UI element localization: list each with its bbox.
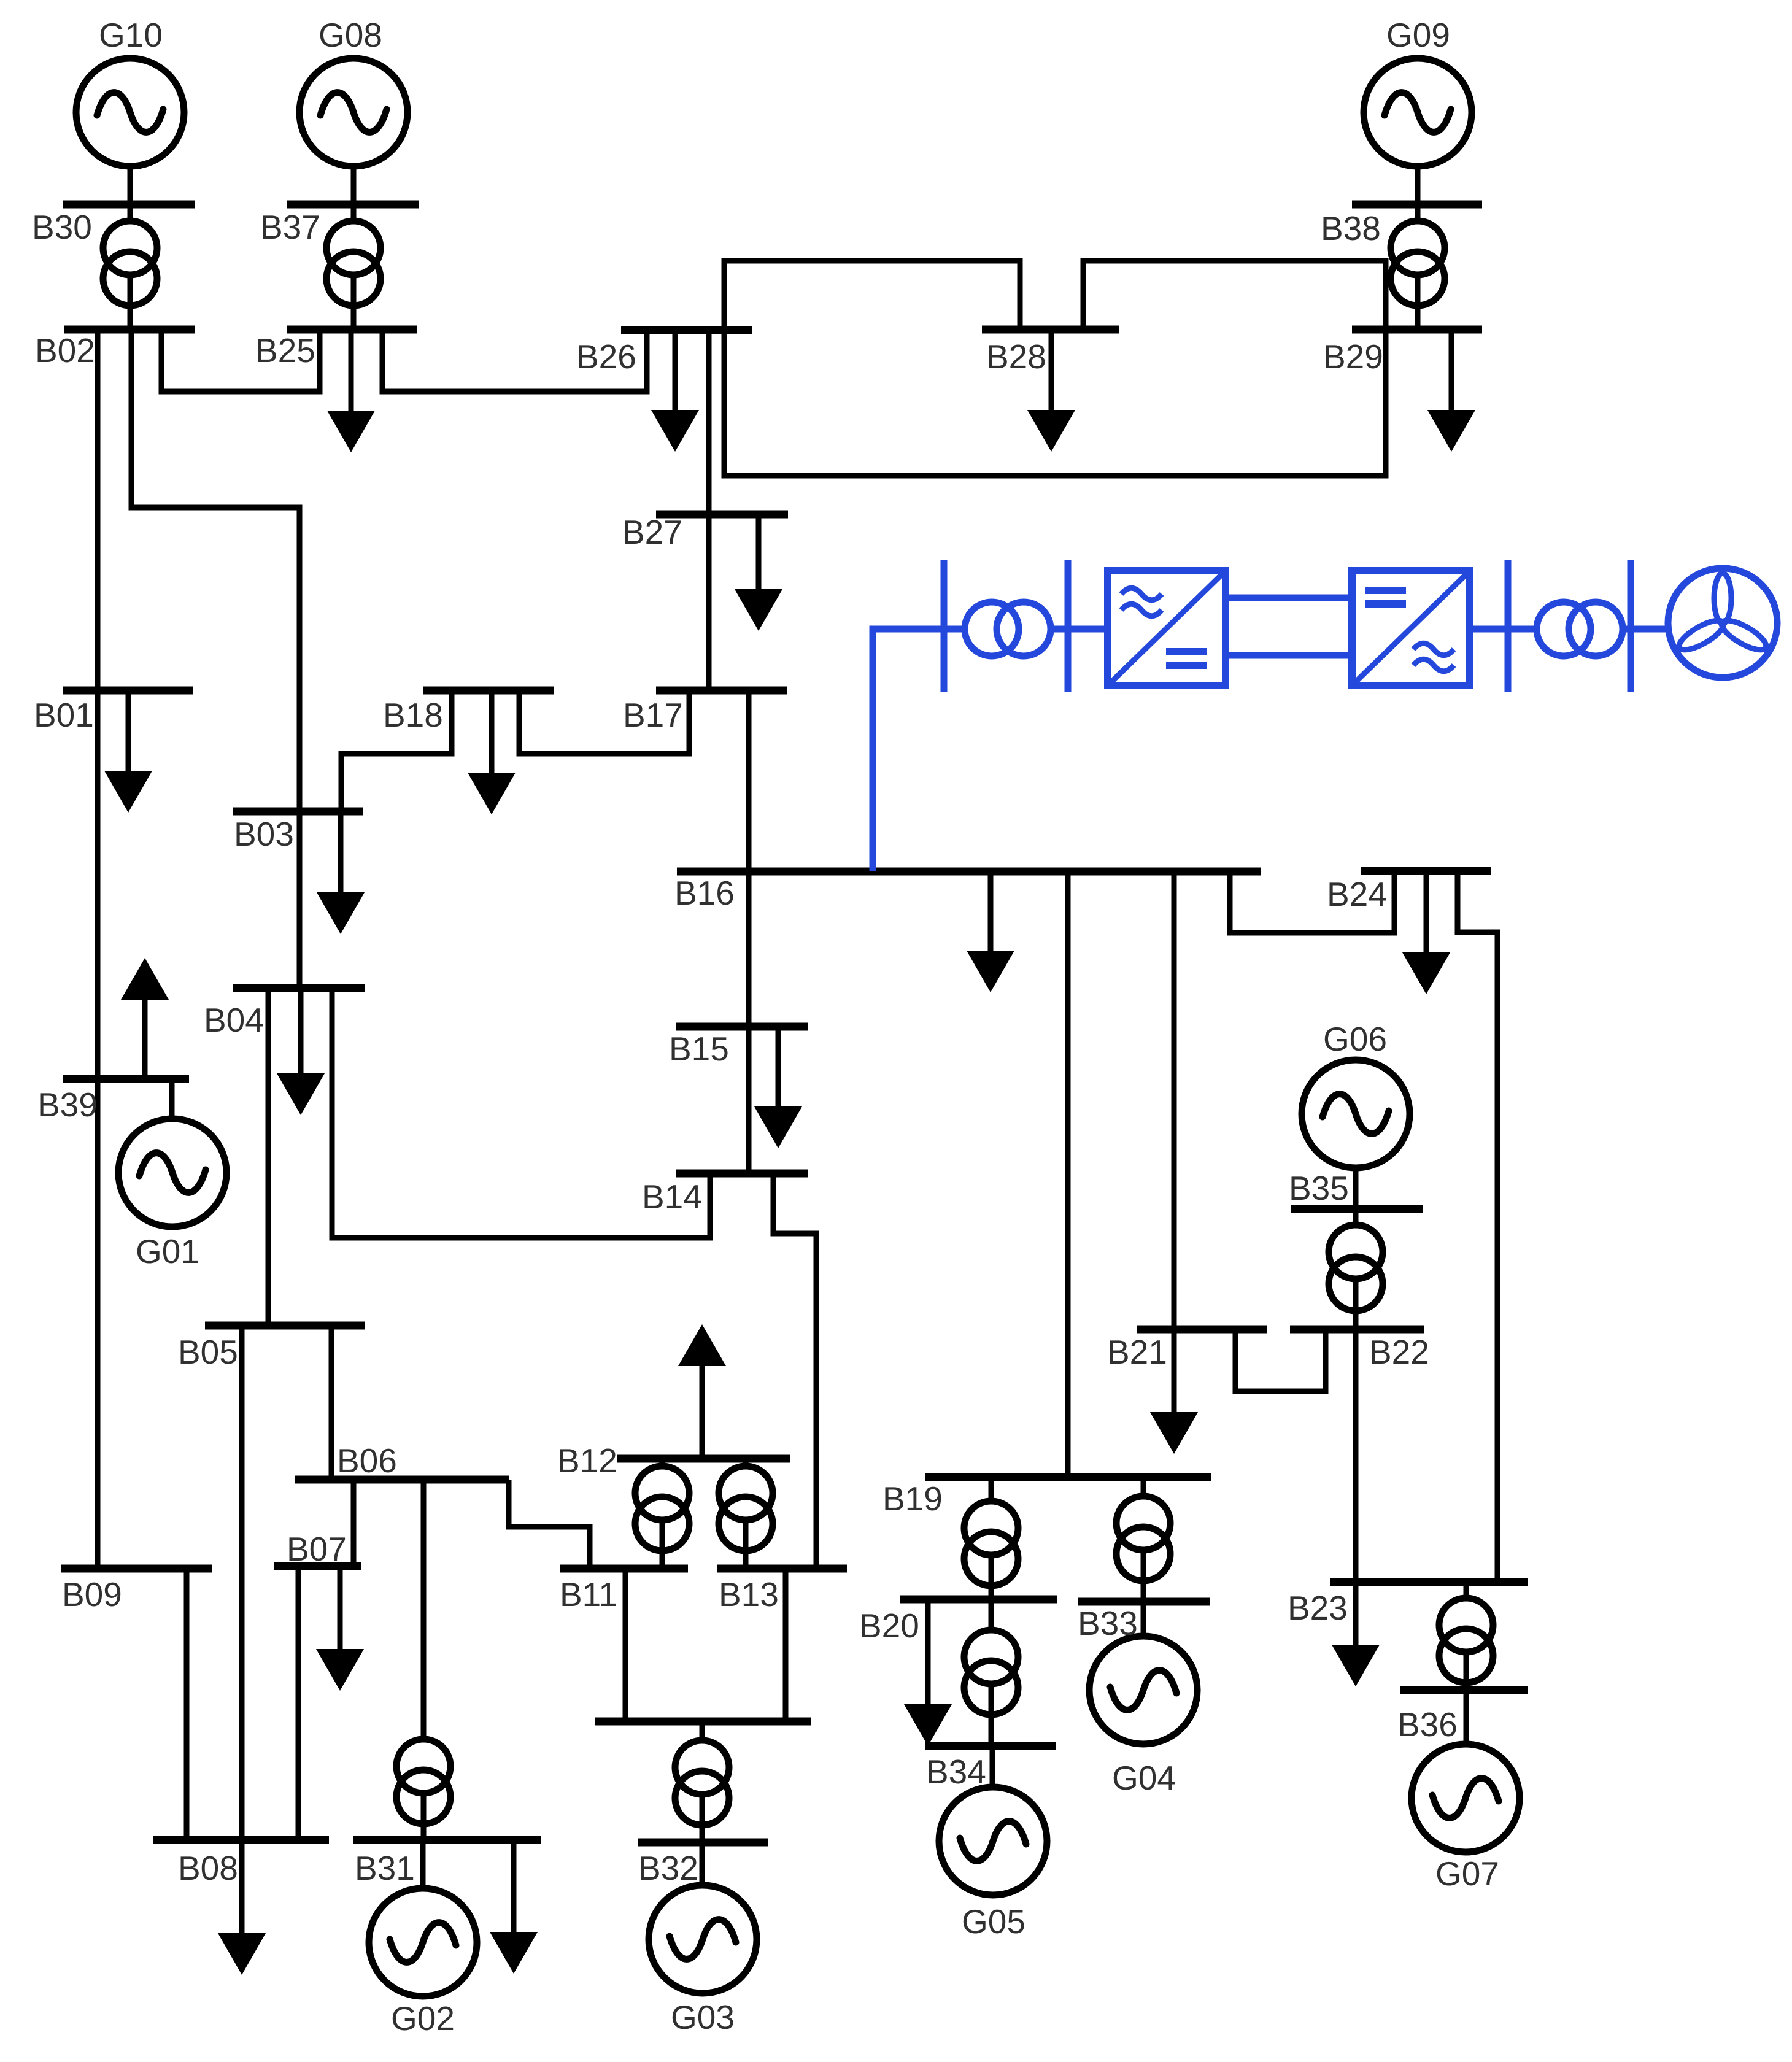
wire B06-B11 <box>509 1480 590 1569</box>
svg-text:G09: G09 <box>1386 16 1450 54</box>
svg-text:B37: B37 <box>260 208 320 246</box>
bus B06 <box>295 1476 509 1484</box>
transformer B19-B20 <box>964 1501 1018 1586</box>
generator G03 <box>649 1885 757 1993</box>
transformer B30-B02 <box>103 221 157 306</box>
wire B37-B25 (via transformer) <box>351 204 357 330</box>
wire B05-B06 <box>329 1326 334 1480</box>
wire B34-G05 <box>990 1746 995 1787</box>
svg-text:G03: G03 <box>671 1998 735 2036</box>
wire B20-B34 (via transformer) <box>989 1599 994 1746</box>
HVDC terminal bar 4 <box>1628 560 1634 692</box>
load arrow at B27 <box>735 514 782 631</box>
bus B19 <box>925 1473 1211 1481</box>
wire B27-B17 <box>706 514 712 690</box>
wire B11-B10 <box>623 1569 628 1721</box>
wire B26-B28 (top trunk) <box>724 261 1020 330</box>
svg-text:G02: G02 <box>391 1999 455 2037</box>
wire B02-B25 <box>161 330 320 392</box>
wire B14-B13 <box>773 1173 816 1569</box>
bus B03 <box>233 808 363 816</box>
svg-text:B16: B16 <box>674 874 735 912</box>
bus B07 <box>274 1562 361 1570</box>
wire T2 to wind turbine (blue) <box>1623 626 1670 633</box>
bus B16 <box>677 868 1261 876</box>
svg-text:B13: B13 <box>719 1575 779 1613</box>
svg-text:B15: B15 <box>669 1030 729 1068</box>
wire G09-B38 <box>1415 167 1421 204</box>
bus B17 <box>656 687 787 695</box>
bus B22 <box>1290 1326 1424 1334</box>
converter U1 (AC/DC) <box>1108 571 1226 685</box>
load arrow at B26 <box>651 330 699 452</box>
bus B29 <box>1352 326 1482 334</box>
generator G06 <box>1302 1060 1410 1168</box>
wire U2 to transformer T2 (blue) <box>1470 626 1537 633</box>
svg-text:G10: G10 <box>99 16 163 54</box>
bus B01 <box>63 687 193 695</box>
transformer B35-B22 <box>1329 1225 1383 1311</box>
wire B28-B29 (upper trunk) <box>1083 261 1386 330</box>
wire B06-B07 <box>351 1480 357 1566</box>
svg-text:G05: G05 <box>962 1902 1025 1940</box>
bus B13 <box>717 1565 847 1573</box>
load arrow at B24 <box>1402 871 1450 994</box>
load arrow at B21 <box>1150 1329 1198 1454</box>
svg-text:B29: B29 <box>1323 338 1383 376</box>
svg-text:B03: B03 <box>234 815 294 853</box>
svg-text:B17: B17 <box>623 696 683 734</box>
wire G08-B37 <box>351 167 357 204</box>
load arrow at B18 <box>468 690 516 814</box>
bus B37 <box>287 201 419 209</box>
bus B34 <box>925 1742 1056 1750</box>
svg-text:B36: B36 <box>1397 1705 1458 1743</box>
load arrow at B01 <box>104 690 152 813</box>
bus B32 <box>638 1839 768 1847</box>
bus B15 <box>676 1023 808 1031</box>
HVDC transformer T2 (blue) <box>1537 602 1623 656</box>
load arrow at B39 (up) <box>121 958 169 1079</box>
wire B39-G01 <box>169 1079 175 1119</box>
load arrow at B23 <box>1332 1582 1380 1686</box>
wire B24-B23 <box>1458 871 1497 1582</box>
wire B02-B03-B04 <box>131 330 299 988</box>
bus B33 <box>1078 1598 1210 1606</box>
wire B26-B27 <box>706 330 712 514</box>
wire B25-B26 <box>382 330 647 392</box>
generator G08 <box>299 58 407 166</box>
wire B19-B33 (via transformer) <box>1141 1477 1146 1602</box>
svg-text:B28: B28 <box>986 338 1046 376</box>
wire B12-B11 (via transformer) <box>660 1459 665 1569</box>
converter U2 (DC/AC) <box>1352 571 1470 685</box>
load arrow at B16 <box>967 871 1014 992</box>
svg-text:B35: B35 <box>1289 1169 1349 1207</box>
load arrow at B03 <box>317 811 365 934</box>
wire B13-B10 <box>783 1569 789 1721</box>
svg-text:B39: B39 <box>37 1086 98 1124</box>
svg-text:B38: B38 <box>1321 209 1381 247</box>
transformer B12-B11 <box>635 1466 689 1551</box>
wire B16 to HVDC tap (blue) <box>873 629 965 871</box>
svg-text:B08: B08 <box>178 1849 238 1887</box>
wire T1 to converter U1 (blue) <box>1051 626 1108 633</box>
transformer B23-B36 <box>1439 1598 1493 1683</box>
svg-text:B31: B31 <box>355 1849 415 1887</box>
svg-text:B18: B18 <box>383 696 443 734</box>
bus B26 <box>621 326 752 334</box>
svg-text:B09: B09 <box>62 1575 122 1613</box>
transformer B37-B25 <box>326 221 380 306</box>
svg-text:B02: B02 <box>35 331 95 369</box>
load arrow at B07 <box>316 1566 364 1691</box>
wire B16-B21 <box>1172 871 1177 1413</box>
svg-text:B32: B32 <box>638 1849 698 1887</box>
wire B17-B16-B15-B14 <box>746 690 752 1173</box>
generator G04 <box>1089 1636 1197 1744</box>
svg-text:B06: B06 <box>337 1442 397 1480</box>
bus B38 <box>1352 201 1482 209</box>
wire B38-B29 (via transformer) <box>1415 204 1421 330</box>
bus B08 <box>153 1836 329 1844</box>
wire B02-B01-B39-B09 <box>95 330 101 1569</box>
bus B18 <box>423 687 554 695</box>
bus B12 <box>617 1455 790 1463</box>
svg-text:B07: B07 <box>287 1530 347 1568</box>
load arrow at B08 <box>218 1840 266 1975</box>
wire B33-G04 <box>1141 1602 1146 1639</box>
bus B05 <box>205 1322 365 1330</box>
wire B12-B13 (via transformer) <box>743 1459 749 1569</box>
wire B18-B17 <box>519 690 689 754</box>
svg-text:B11: B11 <box>560 1575 617 1613</box>
load arrow at B29 <box>1427 330 1475 452</box>
bus B11 <box>560 1565 688 1573</box>
wire B16-B19 <box>1065 871 1071 1477</box>
bus B10 <box>595 1718 811 1726</box>
wire B36-G07 <box>1464 1690 1469 1745</box>
svg-text:G07: G07 <box>1435 1855 1499 1893</box>
svg-text:G01: G01 <box>136 1232 199 1270</box>
HVDC transformer T1 (blue) <box>965 602 1051 656</box>
wire B23-B36 (via transformer) <box>1464 1582 1469 1690</box>
svg-text:B24: B24 <box>1327 875 1387 913</box>
svg-text:G04: G04 <box>1112 1759 1176 1797</box>
bus B31 <box>353 1836 541 1844</box>
bus B24 <box>1361 867 1491 875</box>
load arrow at B31 <box>490 1840 538 1974</box>
bus B21 <box>1137 1326 1267 1334</box>
transformer B20-B34 <box>964 1630 1018 1715</box>
wire B04-B14 <box>332 988 710 1238</box>
svg-text:B20: B20 <box>859 1607 919 1645</box>
bus B27 <box>656 511 788 519</box>
bus B14 <box>676 1170 808 1178</box>
bus B35 <box>1291 1205 1423 1213</box>
svg-text:B33: B33 <box>1078 1604 1138 1642</box>
svg-text:B26: B26 <box>576 338 636 376</box>
generator G01 <box>118 1119 226 1227</box>
generator G09 <box>1364 58 1472 166</box>
svg-text:B25: B25 <box>255 331 315 369</box>
wire B09-B08 <box>184 1569 190 1840</box>
wire B06-B31 (via transformer) <box>421 1480 427 1840</box>
wire B19-B20 (via transformer) <box>989 1477 994 1599</box>
generator G02 <box>369 1888 477 1996</box>
bus B30 <box>63 201 195 209</box>
wire B04-B05 <box>266 988 271 1326</box>
load arrow at B28 <box>1027 330 1075 452</box>
wire G06-B35 <box>1353 1168 1359 1209</box>
HVDC terminal bar 2 <box>1065 560 1072 692</box>
load arrow at B20 <box>904 1599 952 1746</box>
svg-text:G06: G06 <box>1323 1020 1387 1058</box>
bus B23 <box>1330 1578 1528 1586</box>
transformer B19-B33 <box>1116 1496 1170 1581</box>
transformer B06-B31 <box>396 1739 450 1824</box>
HVDC terminal bar 1 <box>941 560 948 692</box>
svg-text:B05: B05 <box>178 1333 238 1371</box>
wire B16-B24 <box>1230 871 1394 933</box>
wire B22-B23 <box>1353 1329 1359 1582</box>
wire B07-B08 <box>296 1566 301 1840</box>
wire B31-G02 <box>420 1840 426 1890</box>
wire B30-B02 (via transformer) <box>128 204 133 330</box>
HVDC DC link (blue) <box>1226 598 1352 655</box>
wire B35-B22 (via transformer) <box>1353 1209 1359 1329</box>
bus B09 <box>61 1565 212 1573</box>
svg-text:B34: B34 <box>926 1753 986 1791</box>
load arrow at B15 <box>754 1027 802 1148</box>
bus B25 <box>287 326 417 334</box>
wire B10-B32 (via transformer) <box>700 1721 705 1842</box>
bus B39 <box>63 1075 189 1083</box>
wind turbine generator (blue) <box>1668 568 1777 678</box>
load arrow at B12 (up) <box>678 1324 726 1459</box>
load arrow at B04 <box>277 988 325 1115</box>
wire B05-B08 <box>239 1326 245 1840</box>
wire G10-B30 <box>128 167 133 204</box>
bus B04 <box>233 984 365 992</box>
svg-text:B19: B19 <box>882 1480 943 1518</box>
wire B26-B29 (lower trunk) <box>724 330 1386 476</box>
bus B28 <box>982 326 1119 334</box>
svg-text:B23: B23 <box>1288 1589 1348 1627</box>
wire B21-B22 <box>1235 1329 1326 1391</box>
svg-text:B04: B04 <box>204 1001 264 1039</box>
transformer B12-B13 <box>719 1466 773 1551</box>
wire B32-G03 <box>700 1842 705 1885</box>
generator G07 <box>1412 1744 1520 1852</box>
transformer B10-B32 <box>675 1740 729 1825</box>
bus B02 <box>64 326 195 334</box>
svg-text:B01: B01 <box>34 696 94 734</box>
wire B03-B18 <box>341 690 452 811</box>
load arrow at B25 <box>327 330 375 452</box>
bus B20 <box>900 1596 1057 1604</box>
transformer B38-B29 <box>1391 221 1445 306</box>
svg-text:B21: B21 <box>1107 1333 1167 1371</box>
svg-text:B27: B27 <box>622 513 682 551</box>
svg-text:G08: G08 <box>319 16 382 54</box>
generator G05 <box>939 1787 1047 1895</box>
svg-text:B12: B12 <box>557 1442 617 1480</box>
bus B36 <box>1400 1686 1528 1694</box>
generator G10 <box>76 58 184 166</box>
svg-text:B14: B14 <box>642 1178 702 1216</box>
HVDC terminal bar 3 <box>1505 560 1512 692</box>
svg-text:B30: B30 <box>32 208 92 246</box>
svg-text:B22: B22 <box>1369 1333 1429 1371</box>
